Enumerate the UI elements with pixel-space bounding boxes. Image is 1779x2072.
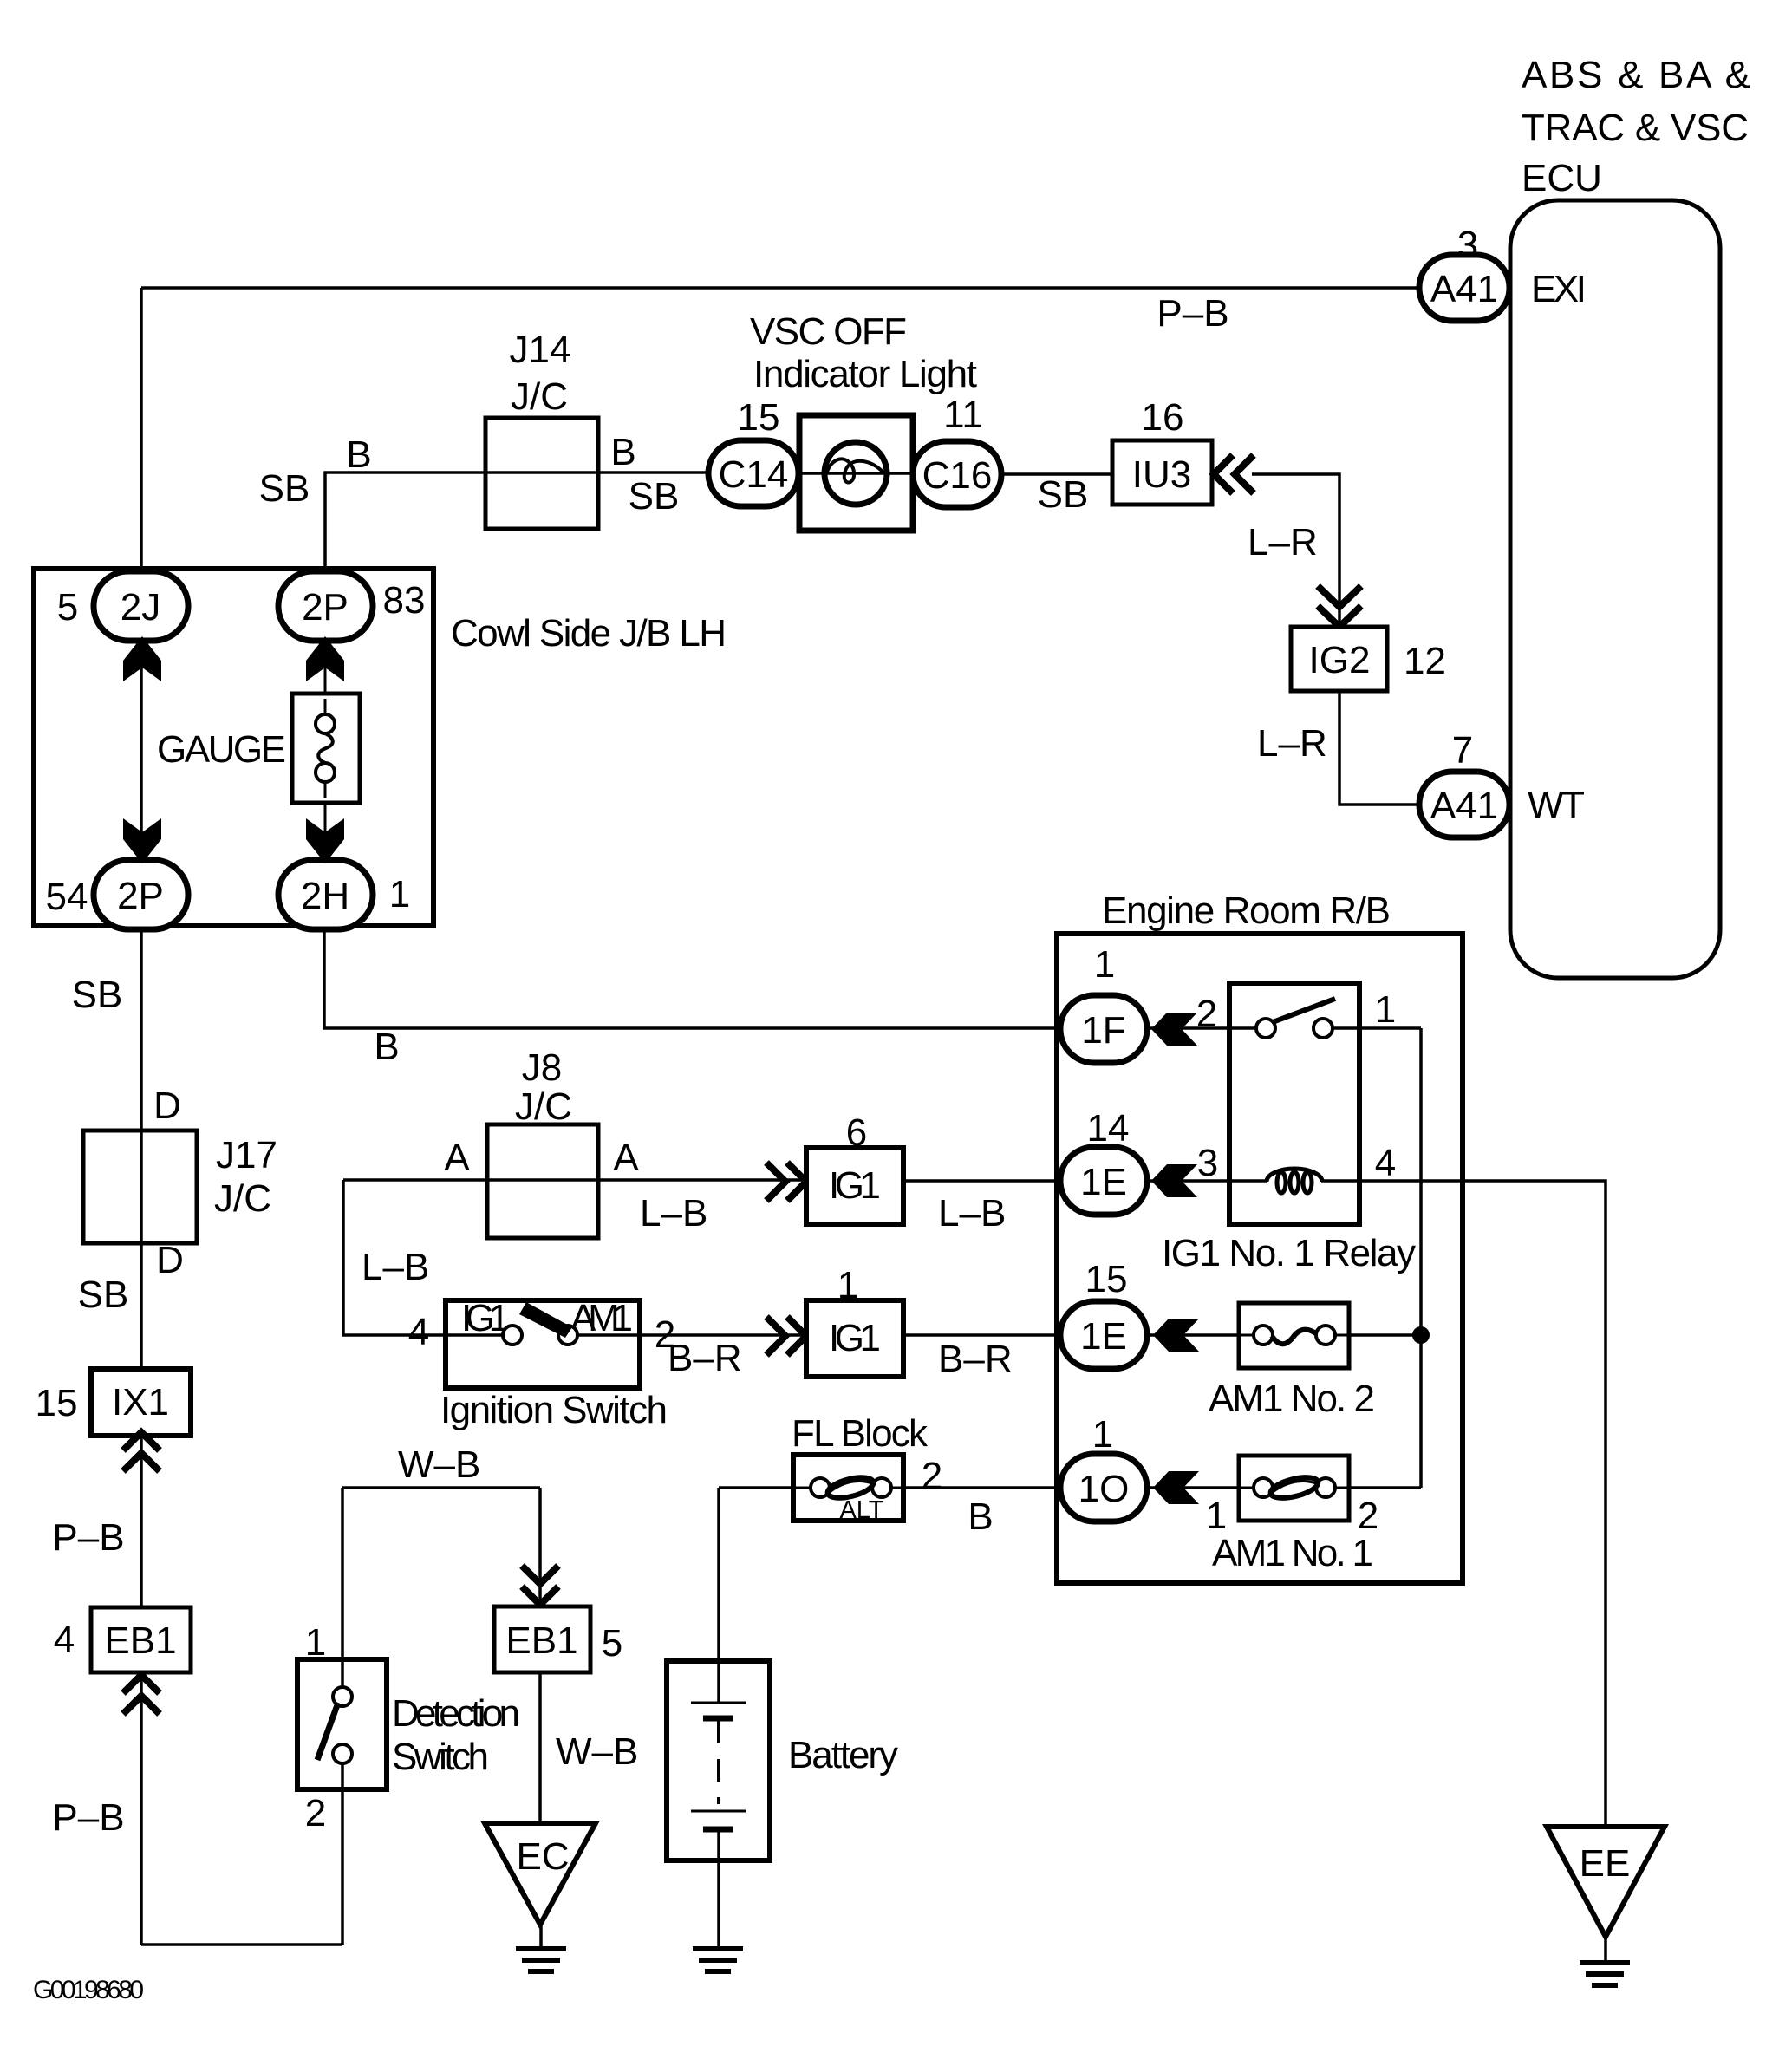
svg-text:SB: SB xyxy=(72,974,123,1016)
svg-text:1: 1 xyxy=(837,1264,858,1306)
connector C14 pin 15 xyxy=(708,440,798,506)
svg-text:IX1: IX1 xyxy=(112,1381,169,1424)
svg-text:5: 5 xyxy=(57,586,78,629)
junction connector J8 J/C xyxy=(487,1124,598,1238)
svg-text:A: A xyxy=(444,1137,470,1179)
arrow up below 2J xyxy=(123,636,161,681)
svg-text:B: B xyxy=(968,1495,993,1538)
svg-text:2H: 2H xyxy=(301,875,349,917)
wire left vertical main xyxy=(140,928,143,1945)
ECU U1 ABS & BA & TRAC & VSC box xyxy=(1510,200,1720,978)
wire through J14 xyxy=(485,471,598,474)
wire battery bottom to ground xyxy=(717,1829,720,1947)
svg-text:B: B xyxy=(610,431,635,473)
svg-text:B–R: B–R xyxy=(938,1338,1013,1380)
svg-text:3: 3 xyxy=(1457,224,1478,266)
svg-text:B–R: B–R xyxy=(668,1337,742,1379)
connector 2P pin 54 xyxy=(94,860,188,929)
wire battery top vertical xyxy=(717,1488,720,1703)
wire detection switch pin2 stub xyxy=(341,1763,344,1789)
arrow left at 1O xyxy=(1153,1471,1199,1504)
ground EC xyxy=(485,1823,596,1925)
svg-text:14: 14 xyxy=(1087,1107,1130,1150)
svg-text:Battery: Battery xyxy=(788,1734,898,1776)
wire relay coil pin4 to EE xyxy=(1321,1181,1606,1827)
svg-text:B: B xyxy=(346,433,371,476)
svg-text:2: 2 xyxy=(305,1792,326,1834)
svg-text:IG1: IG1 xyxy=(829,1164,881,1207)
svg-text:1: 1 xyxy=(1092,1413,1113,1456)
svg-text:1E: 1E xyxy=(1080,1315,1127,1358)
chevron connector arrows above EB1 pin5 xyxy=(522,1566,558,1605)
battery xyxy=(667,1661,770,1860)
wire IG1 to 1E L-B xyxy=(903,1179,1060,1183)
svg-text:IG1: IG1 xyxy=(829,1317,881,1359)
wire gauge right column xyxy=(324,641,327,860)
svg-text:1F: 1F xyxy=(1081,1009,1125,1052)
svg-text:D: D xyxy=(153,1085,181,1127)
svg-text:EB1: EB1 xyxy=(104,1619,176,1662)
svg-text:15: 15 xyxy=(1085,1258,1128,1300)
connector 2J pin 5 xyxy=(94,571,188,641)
svg-text:GAUGE: GAUGE xyxy=(157,728,286,771)
svg-text:J/C: J/C xyxy=(214,1177,271,1220)
fuse GAUGE xyxy=(292,694,360,803)
wire W-B down to EB1 xyxy=(538,1488,542,1606)
svg-text:IU3: IU3 xyxy=(1132,453,1191,496)
svg-text:15: 15 xyxy=(738,396,780,439)
arrow up below 2P 83 xyxy=(306,636,344,681)
chevron connector arrows above IG2 xyxy=(1318,586,1361,627)
svg-text:1: 1 xyxy=(305,1621,326,1664)
wire 1O to AM1 No.1 xyxy=(1147,1486,1254,1489)
wire detection switch pin2 vertical xyxy=(341,1789,344,1945)
svg-text:A41: A41 xyxy=(1430,785,1498,827)
chevron connector arrows left of IU3 xyxy=(1214,455,1254,493)
connector 1F pin 1 xyxy=(1060,995,1147,1063)
chevron connector arrows below IX1 xyxy=(123,1432,160,1471)
svg-text:W–B: W–B xyxy=(556,1730,638,1773)
svg-text:1: 1 xyxy=(1094,943,1115,986)
svg-text:4: 4 xyxy=(1375,1142,1396,1184)
svg-text:7: 7 xyxy=(1452,729,1473,772)
junction dot xyxy=(1412,1326,1430,1344)
svg-text:P–B: P–B xyxy=(52,1796,124,1839)
chevron connector arrows below EB1 xyxy=(123,1675,160,1714)
svg-text:P–B: P–B xyxy=(1157,292,1228,335)
svg-text:15: 15 xyxy=(36,1382,78,1424)
connector 1E pin 15 xyxy=(1060,1301,1147,1369)
wire gauge left column xyxy=(140,639,143,862)
svg-text:W–B: W–B xyxy=(398,1443,480,1486)
ground below battery xyxy=(693,1949,743,1971)
svg-text:WT: WT xyxy=(1528,784,1585,826)
svg-text:AM1: AM1 xyxy=(570,1297,633,1339)
svg-text:5: 5 xyxy=(602,1622,622,1665)
wire J14 to C14 xyxy=(598,471,708,474)
svg-text:SB: SB xyxy=(78,1274,129,1316)
svg-text:Switch: Switch xyxy=(392,1736,489,1778)
svg-text:J/C: J/C xyxy=(515,1085,572,1128)
connector EB1 pin 5 xyxy=(494,1606,590,1672)
svg-text:Cowl Side J/B LH: Cowl Side J/B LH xyxy=(451,612,727,655)
connector IX1 pin 15 xyxy=(91,1369,191,1436)
svg-text:C16: C16 xyxy=(922,454,993,497)
wire EC apex to ground xyxy=(539,1925,543,1947)
Cowl Side J/B LH box xyxy=(34,569,433,926)
VSC OFF indicator light bulb xyxy=(799,415,913,531)
svg-text:C14: C14 xyxy=(719,453,789,496)
connector IG1 pin 6 xyxy=(806,1148,903,1224)
svg-text:1: 1 xyxy=(1375,988,1396,1031)
wire P-B top horizontal xyxy=(141,286,1419,290)
svg-text:AM1 No. 1: AM1 No. 1 xyxy=(1212,1532,1373,1574)
svg-text:J17: J17 xyxy=(216,1134,277,1176)
svg-text:IG2: IG2 xyxy=(1309,639,1371,681)
svg-text:L–B: L–B xyxy=(640,1192,707,1235)
svg-text:11: 11 xyxy=(943,394,983,436)
wire 1E to relay coil pin3 xyxy=(1147,1179,1267,1183)
svg-text:L–R: L–R xyxy=(1248,521,1318,564)
svg-text:B: B xyxy=(374,1026,399,1068)
wire through indicator light xyxy=(798,472,913,475)
arrow left at 1E pin15 xyxy=(1153,1319,1199,1352)
svg-text:ALT: ALT xyxy=(839,1496,883,1524)
svg-text:SB: SB xyxy=(1038,473,1089,516)
wire ignition switch to IG1 B-R xyxy=(577,1333,806,1337)
connector 1O pin 1 xyxy=(1060,1454,1147,1521)
connector IG2 pin 12 xyxy=(1291,627,1387,691)
wire relay pin1 xyxy=(1333,1026,1421,1030)
svg-text:2: 2 xyxy=(1358,1495,1378,1537)
svg-text:4: 4 xyxy=(54,1619,75,1661)
svg-text:54: 54 xyxy=(46,876,88,918)
wire EB1 to EC W-B xyxy=(538,1672,542,1824)
relay coil xyxy=(1267,1169,1322,1193)
svg-text:D: D xyxy=(156,1239,184,1281)
wire 1F to relay contact xyxy=(1147,1026,1256,1030)
svg-text:J14: J14 xyxy=(510,329,571,371)
connector C16 pin 11 xyxy=(913,441,1001,507)
svg-text:ABS & BA &: ABS & BA & xyxy=(1522,54,1750,96)
svg-text:16: 16 xyxy=(1142,396,1184,439)
connector A41 pin 3 EXI xyxy=(1419,255,1509,321)
svg-text:1: 1 xyxy=(1206,1495,1227,1537)
svg-text:A41: A41 xyxy=(1430,268,1498,310)
junction connector J17 J/C xyxy=(83,1130,197,1243)
svg-text:TRAC & VSC: TRAC & VSC xyxy=(1522,107,1749,149)
svg-text:83: 83 xyxy=(383,579,426,622)
wire battery to FL block xyxy=(719,1486,810,1489)
battery dashed center line xyxy=(717,1721,720,1804)
detection switch SW2 xyxy=(297,1659,387,1789)
wire A to J8 to IG1 xyxy=(343,1178,806,1182)
wire 1E to AM1 No.2 xyxy=(1147,1333,1254,1337)
svg-text:J/C: J/C xyxy=(511,375,568,418)
connector IG1 pin 1 xyxy=(806,1300,903,1377)
svg-text:3: 3 xyxy=(1197,1142,1218,1184)
svg-text:2: 2 xyxy=(1196,993,1217,1035)
svg-text:2P: 2P xyxy=(302,586,349,629)
fuse AM1 No.2 xyxy=(1239,1303,1349,1368)
svg-text:EB1: EB1 xyxy=(505,1619,577,1662)
arrow down above 2H xyxy=(306,818,344,863)
svg-text:FL Block: FL Block xyxy=(792,1412,929,1455)
svg-text:Indicator Light: Indicator Light xyxy=(753,353,977,395)
wire C16 to IU3 xyxy=(1001,472,1112,476)
svg-text:J8: J8 xyxy=(522,1046,562,1089)
arrow down above 2P 54 xyxy=(123,818,161,863)
wire bottom left horizontal xyxy=(141,1943,342,1946)
fusible link AM1 No.1 xyxy=(1239,1456,1349,1521)
wire IG2 to A41 L-R xyxy=(1339,691,1419,805)
chevron connector arrows before IG1 No.1 xyxy=(766,1317,806,1355)
svg-text:2: 2 xyxy=(922,1455,942,1497)
svg-text:EC: EC xyxy=(516,1835,569,1878)
connector IU3 pin 16 xyxy=(1112,440,1212,505)
wire IG1 to 1E B-R xyxy=(903,1333,1060,1337)
svg-text:AM1 No. 2: AM1 No. 2 xyxy=(1209,1378,1375,1420)
connector 2H pin 1 xyxy=(278,860,373,929)
svg-text:1O: 1O xyxy=(1078,1468,1130,1510)
svg-text:12: 12 xyxy=(1404,640,1446,682)
chevron connector arrows before IG1 No.6 xyxy=(766,1163,806,1201)
svg-text:L–B: L–B xyxy=(362,1246,429,1288)
svg-text:1E: 1E xyxy=(1080,1161,1127,1203)
connector EB1 pin 4 xyxy=(91,1607,191,1672)
wire FL block to 1O B xyxy=(891,1486,1060,1489)
connector 2P pin 83 xyxy=(278,571,373,641)
arrow left at 1E pin14 xyxy=(1151,1164,1197,1197)
wire W-B horizontal xyxy=(342,1486,540,1489)
svg-text:4: 4 xyxy=(408,1311,429,1353)
svg-text:2P: 2P xyxy=(117,875,164,917)
ignition switch SW1 xyxy=(446,1300,640,1388)
svg-text:L–B: L–B xyxy=(938,1192,1006,1235)
arrow left at 1F xyxy=(1151,1013,1197,1046)
svg-text:Engine Room R/B: Engine Room R/B xyxy=(1102,889,1391,932)
wire IU3 to IG2 L-R xyxy=(1252,474,1339,627)
wire left vertical top xyxy=(140,288,143,573)
wire L-B vertical to ignition switch xyxy=(343,1180,503,1335)
wire AM1 No.2 to junction xyxy=(1335,1333,1421,1337)
connector 1E pin 14 xyxy=(1060,1147,1147,1215)
svg-text:Ignition Switch: Ignition Switch xyxy=(440,1389,668,1431)
ground EE xyxy=(1547,1827,1665,1937)
connector A41 pin 7 WT xyxy=(1419,772,1509,837)
svg-text:EXI: EXI xyxy=(1531,268,1587,310)
wire 2H to 1F B xyxy=(324,928,1060,1028)
wire EE apex to ground xyxy=(1604,1937,1607,1961)
svg-text:1: 1 xyxy=(389,873,410,915)
IG1 No.1 relay K1 xyxy=(1229,983,1359,1224)
svg-text:VSC OFF: VSC OFF xyxy=(750,310,907,353)
svg-text:6: 6 xyxy=(846,1111,867,1154)
wire SB 2P to J14 xyxy=(325,472,485,571)
svg-text:SB: SB xyxy=(259,467,310,510)
svg-text:ECU: ECU xyxy=(1522,157,1602,199)
svg-text:G00198680: G00198680 xyxy=(33,1976,144,2004)
svg-text:A: A xyxy=(613,1137,639,1179)
wire detection switch pin1 vertical xyxy=(341,1488,344,1687)
svg-text:Detection: Detection xyxy=(392,1692,520,1735)
svg-text:EE: EE xyxy=(1580,1842,1631,1885)
svg-text:SB: SB xyxy=(629,475,680,518)
svg-text:IG1 No. 1 Relay: IG1 No. 1 Relay xyxy=(1162,1232,1416,1274)
wire AM1 No.1 pin2 to junction xyxy=(1335,1486,1421,1489)
svg-text:P–B: P–B xyxy=(52,1516,124,1559)
wire junction vertical right of relay xyxy=(1419,1028,1423,1488)
svg-text:L–R: L–R xyxy=(1257,722,1327,765)
Engine Room R/B box xyxy=(1057,934,1463,1583)
svg-text:2J: 2J xyxy=(121,586,160,629)
junction connector J14 J/C xyxy=(485,418,598,529)
